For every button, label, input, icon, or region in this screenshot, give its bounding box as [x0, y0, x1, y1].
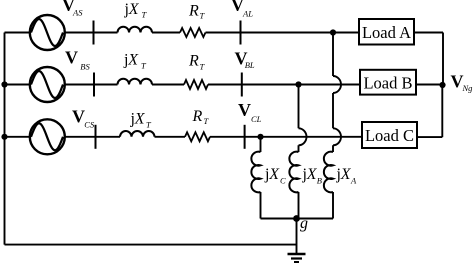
label VCL — [238, 100, 262, 124]
svg-text:BL: BL — [245, 60, 255, 70]
inductor jXT row A — [118, 27, 153, 33]
svg-text:V: V — [238, 100, 251, 120]
label jXB — [302, 166, 322, 186]
wire hop branch A over phase B — [333, 76, 341, 93]
wire branch A vertical — [332, 33, 334, 219]
svg-text:R: R — [188, 53, 199, 70]
node g junction — [293, 215, 300, 222]
inductor jXT row B — [118, 79, 153, 85]
label VBS — [65, 48, 90, 72]
svg-text:X: X — [127, 52, 139, 69]
source VBS — [30, 67, 65, 102]
label VNg — [451, 71, 473, 93]
wire hop branch B over phase C — [299, 128, 307, 145]
svg-text:B: B — [317, 176, 322, 186]
node tick VBS — [93, 73, 95, 97]
svg-text:Load A: Load A — [362, 23, 411, 42]
label g — [300, 215, 308, 232]
junction node phase B branch tap — [295, 81, 301, 87]
svg-text:V: V — [72, 107, 85, 127]
ground — [288, 254, 306, 262]
source VCS — [30, 119, 65, 154]
svg-text:X: X — [128, 1, 140, 18]
svg-text:AL: AL — [242, 9, 253, 19]
Load A box — [359, 19, 414, 45]
wire phase C row — [5, 85, 443, 137]
wire branch B vertical — [298, 85, 300, 219]
resistor RT row B — [184, 80, 208, 89]
wire g to ground — [296, 219, 298, 255]
wire bottom return rail — [5, 244, 297, 246]
label jXT row B — [123, 52, 147, 71]
svg-text:A: A — [350, 176, 357, 186]
label jXT row A — [124, 1, 148, 20]
svg-text:Ng: Ng — [462, 83, 473, 93]
svg-text:R: R — [188, 3, 199, 20]
label VAL — [231, 0, 253, 19]
label RT row C — [192, 108, 210, 126]
label RT row B — [188, 53, 206, 72]
wire phase B row — [5, 84, 443, 86]
node tick VCS — [95, 125, 97, 149]
wire shunt bank bottom rail — [261, 218, 334, 220]
svg-text:C: C — [280, 176, 286, 186]
svg-text:g: g — [300, 215, 308, 232]
label jXC — [264, 166, 286, 186]
wire phase A row — [5, 33, 444, 86]
label RT row A — [188, 3, 206, 21]
resistor RT row A — [180, 28, 205, 37]
label jXA — [336, 166, 358, 186]
svg-text:CL: CL — [251, 114, 262, 124]
junction node phase A branch tap — [330, 29, 336, 35]
inductor jXC — [251, 152, 260, 193]
inductor jXT row C — [120, 131, 155, 137]
inductor jXA — [324, 152, 333, 193]
label VAS — [62, 0, 83, 18]
label VCS — [72, 107, 95, 130]
Load B box — [360, 70, 416, 95]
svg-text:Load C: Load C — [365, 126, 414, 145]
Load C box — [362, 122, 417, 148]
svg-text:X: X — [134, 111, 146, 128]
svg-text:BS: BS — [80, 62, 90, 72]
junction node bus phase C — [1, 134, 7, 140]
label VBL — [235, 49, 255, 71]
node tick VBL — [241, 73, 243, 97]
source VAS — [30, 15, 65, 50]
label jXT row C — [130, 111, 153, 130]
junction node phase C branch tap — [257, 134, 263, 140]
node tick VAL — [240, 21, 242, 45]
wire branch C vertical — [260, 137, 262, 219]
inductor jXB — [289, 152, 298, 193]
wire hop branch A over phase C — [333, 128, 341, 145]
svg-text:CS: CS — [84, 120, 95, 130]
node tick VCL — [244, 125, 246, 149]
svg-text:R: R — [192, 108, 203, 125]
svg-text:X: X — [340, 166, 352, 183]
junction node VNg on right bus — [439, 82, 445, 88]
svg-text:V: V — [65, 48, 78, 68]
wire left neutral bus — [4, 33, 6, 245]
junction node bus phase B — [1, 81, 7, 87]
resistor RT row C — [185, 132, 210, 141]
svg-text:AS: AS — [72, 8, 83, 18]
svg-text:Load B: Load B — [363, 74, 412, 93]
svg-text:X: X — [268, 166, 280, 183]
node tick VAS — [93, 21, 95, 45]
